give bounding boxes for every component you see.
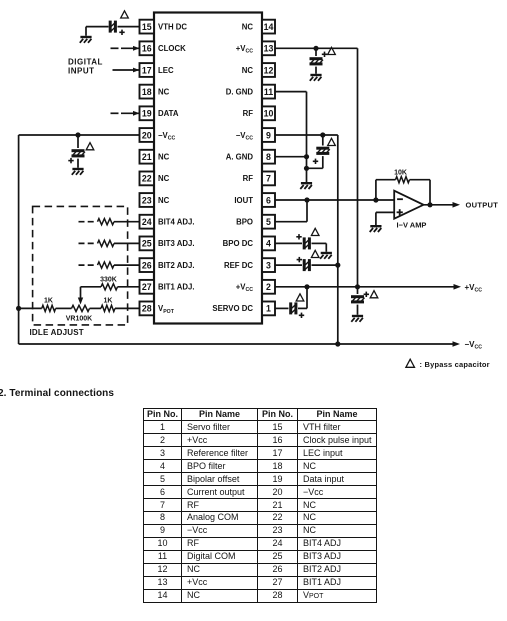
svg-text:28: 28 — [142, 304, 152, 314]
svg-text:LEC: LEC — [158, 66, 174, 75]
svg-text:VTH DC: VTH DC — [158, 22, 187, 31]
svg-text:10: 10 — [264, 109, 274, 119]
svg-text:I−V AMP: I−V AMP — [397, 221, 427, 230]
svg-text:IDLE ADJUST: IDLE ADJUST — [30, 328, 84, 337]
svg-text:DIGITAL: DIGITAL — [68, 57, 103, 66]
svg-text:NC: NC — [242, 22, 254, 31]
svg-text:SERVO DC: SERVO DC — [212, 304, 253, 313]
svg-text:21: 21 — [142, 152, 152, 162]
svg-text:7: 7 — [266, 174, 271, 184]
svg-text:4: 4 — [266, 239, 271, 249]
svg-text:23: 23 — [142, 195, 152, 205]
svg-text:1: 1 — [266, 304, 271, 314]
svg-text:BIT1 ADJ.: BIT1 ADJ. — [158, 283, 195, 292]
svg-text:25: 25 — [142, 239, 152, 249]
svg-text:9: 9 — [266, 130, 271, 140]
svg-text:: Bypass capacitor: : Bypass capacitor — [420, 360, 490, 369]
svg-text:D. GND: D. GND — [226, 87, 254, 96]
svg-text:NC: NC — [158, 153, 170, 162]
svg-text:17: 17 — [142, 65, 152, 75]
svg-text:20: 20 — [142, 130, 152, 140]
svg-text:CLOCK: CLOCK — [158, 44, 186, 53]
svg-text:RF: RF — [243, 109, 254, 118]
svg-text:6: 6 — [266, 195, 271, 205]
svg-text:BIT2 ADJ.: BIT2 ADJ. — [158, 261, 195, 270]
svg-text:BIT4 ADJ.: BIT4 ADJ. — [158, 218, 195, 227]
svg-text:11: 11 — [264, 87, 273, 97]
svg-text:VR100K: VR100K — [66, 316, 92, 323]
svg-text:OUTPUT: OUTPUT — [466, 201, 499, 210]
svg-text:2: 2 — [266, 282, 271, 292]
svg-text:IOUT: IOUT — [234, 196, 253, 205]
svg-text:NC: NC — [242, 66, 254, 75]
svg-text:16: 16 — [142, 44, 152, 54]
svg-text:NC: NC — [158, 174, 170, 183]
svg-text:NC: NC — [158, 196, 170, 205]
svg-text:5: 5 — [266, 217, 271, 227]
svg-text:26: 26 — [142, 260, 152, 270]
svg-text:15: 15 — [142, 22, 152, 32]
svg-text:330K: 330K — [100, 277, 117, 284]
svg-text:+VCC: +VCC — [465, 283, 483, 294]
svg-text:BIT3 ADJ.: BIT3 ADJ. — [158, 239, 195, 248]
svg-text:INPUT: INPUT — [68, 67, 95, 76]
svg-text:10K: 10K — [394, 170, 407, 177]
svg-text:RF: RF — [243, 174, 254, 183]
svg-text:27: 27 — [142, 282, 152, 292]
svg-text:BPO: BPO — [236, 218, 253, 227]
svg-text:14: 14 — [264, 22, 274, 32]
svg-text:12: 12 — [264, 65, 274, 75]
svg-text:8: 8 — [266, 152, 271, 162]
svg-text:1K: 1K — [44, 298, 53, 305]
svg-text:−VCC: −VCC — [465, 340, 483, 351]
svg-text:22: 22 — [142, 174, 152, 184]
svg-text:BPO DC: BPO DC — [223, 239, 254, 248]
svg-text:18: 18 — [142, 87, 152, 97]
svg-text:REF DC: REF DC — [224, 261, 253, 270]
svg-text:3: 3 — [266, 260, 271, 270]
svg-text:A. GND: A. GND — [226, 153, 254, 162]
svg-text:13: 13 — [264, 44, 274, 54]
svg-text:NC: NC — [158, 87, 170, 96]
svg-text:1K: 1K — [104, 298, 113, 305]
svg-text:24: 24 — [142, 217, 152, 227]
svg-text:19: 19 — [142, 109, 152, 119]
svg-text:DATA: DATA — [158, 109, 179, 118]
